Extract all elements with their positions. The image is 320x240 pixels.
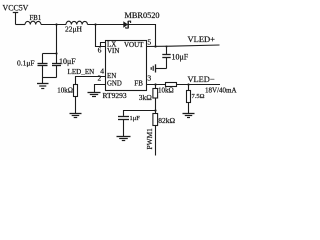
svg-text:GND: GND xyxy=(107,80,122,87)
ferrite bead FB1 xyxy=(25,21,41,24)
svg-text:FB1: FB1 xyxy=(30,15,42,22)
wire 82k to PWM1 xyxy=(155,126,157,156)
wire 22uH to diode anode xyxy=(88,24,124,26)
svg-text:10μF: 10μF xyxy=(172,52,189,61)
wire 7.5R from VLED- xyxy=(188,85,190,91)
svg-text:RT9293: RT9293 xyxy=(103,91,127,100)
ground R5 xyxy=(183,114,195,118)
op IC U1 RT9293 box xyxy=(106,41,147,91)
wire LX stub xyxy=(101,43,106,47)
node junction VCC rail xyxy=(55,23,57,25)
svg-text:VLED−: VLED− xyxy=(188,75,215,84)
capacitor C4 1uF xyxy=(118,117,129,137)
svg-text:FB: FB xyxy=(134,79,143,87)
diode D1 MBR0520 xyxy=(123,21,130,29)
svg-text:VCC5V: VCC5V xyxy=(3,4,29,13)
svg-text:7.5Ω: 7.5Ω xyxy=(192,93,205,100)
capacitor C2 10uF xyxy=(52,54,61,78)
resistor R1 10k EN pulldown xyxy=(74,85,78,97)
node junction C3 xyxy=(166,46,168,48)
svg-text:22μH: 22μH xyxy=(65,25,83,34)
ground C4 xyxy=(117,137,131,141)
svg-text:6: 6 xyxy=(98,45,102,54)
svg-text:MBR0520: MBR0520 xyxy=(125,11,160,20)
node junction LX branch xyxy=(94,23,96,25)
capacitor C1 0.1uF xyxy=(38,54,48,78)
ground sideways C3 xyxy=(151,64,155,72)
svg-text:VOUT: VOUT xyxy=(124,41,144,49)
svg-text:10kΩ: 10kΩ xyxy=(57,87,73,95)
wire to 1uF xyxy=(124,111,156,116)
ground R1 xyxy=(70,114,82,118)
wire FB1 to 22uH xyxy=(41,24,66,26)
node junction FB divider xyxy=(154,83,156,85)
wire 3k from FB xyxy=(155,85,157,89)
svg-text:VIN: VIN xyxy=(107,47,119,55)
wire GND pin 2 xyxy=(95,85,106,93)
ground IC GND xyxy=(88,93,101,97)
svg-text:VLED+: VLED+ xyxy=(188,34,216,44)
svg-text:10kΩ: 10kΩ xyxy=(158,87,174,95)
wire 3k to junction xyxy=(155,98,157,114)
wire diode cathode to corner xyxy=(128,25,155,47)
wire VOUT pin 5 net VLED+ xyxy=(147,45,220,47)
wire caps bottom xyxy=(43,77,57,79)
resistor R2 10k horizontal xyxy=(166,83,177,87)
wire input rail down xyxy=(56,25,58,54)
svg-text:18V/40mA: 18V/40mA xyxy=(205,86,237,94)
wire FB pin 3 net VLED- xyxy=(147,84,221,86)
svg-text:LED_EN: LED_EN xyxy=(68,68,95,76)
svg-text:0.1μF: 0.1μF xyxy=(17,58,35,67)
inductor L1 22uH xyxy=(66,21,88,24)
resistor R5 7.5 ohm xyxy=(187,91,191,103)
svg-text:3: 3 xyxy=(147,74,151,83)
svg-text:82kΩ: 82kΩ xyxy=(158,116,175,125)
resistor R4 82k xyxy=(153,114,158,126)
svg-text:3kΩ: 3kΩ xyxy=(139,93,153,102)
wire VCC to FB1 xyxy=(16,24,26,26)
node junction 7.5R branch xyxy=(187,83,189,85)
node junction diode to VOUT xyxy=(154,45,156,47)
svg-text:PWM1: PWM1 xyxy=(145,128,154,150)
svg-text:1μF: 1μF xyxy=(130,115,141,122)
wire 7.5R to ground xyxy=(188,103,190,114)
wire LED_EN to EN pin 4 xyxy=(76,77,106,85)
resistor R3 3k xyxy=(153,89,158,99)
wire C3 to side ground xyxy=(156,68,167,70)
wire LX VIN pin 6 xyxy=(96,25,106,47)
svg-text:EN: EN xyxy=(107,72,116,80)
svg-text:2: 2 xyxy=(98,73,102,82)
svg-text:5: 5 xyxy=(147,38,151,47)
node junction caps xyxy=(55,52,57,54)
wire R1 to ground xyxy=(75,97,77,114)
capacitor C3 10uF output xyxy=(162,47,170,69)
VCC5V power symbol xyxy=(13,13,18,25)
node junction compensation xyxy=(154,109,156,111)
wire caps top xyxy=(43,53,57,55)
ground input caps xyxy=(37,78,49,89)
svg-text:10μF: 10μF xyxy=(59,57,76,66)
